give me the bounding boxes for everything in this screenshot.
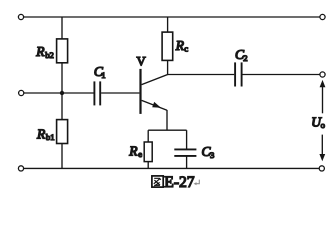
svg-text:V: V [137, 54, 147, 68]
svg-text:3: 3 [210, 150, 214, 160]
svg-text:b1: b1 [46, 132, 55, 142]
terminal: input mid-left [19, 90, 24, 95]
terminal: bottom-left [18, 166, 23, 171]
terminal: top-right [320, 14, 325, 19]
wire: C2 to output terminal [243, 74, 320, 76]
capacitor C3 [174, 149, 196, 156]
svg-text:o: o [321, 120, 326, 130]
wire: Rb2 top lead [61, 17, 63, 39]
wire: emitter bus [148, 129, 186, 131]
wire: Re top lead [147, 130, 149, 142]
label Rc [175, 38, 189, 54]
svg-text:R: R [175, 38, 185, 53]
label Re [128, 144, 142, 160]
wire: output wire collector to C2 [168, 74, 235, 76]
capacitor C2 [235, 62, 242, 86]
wire: Rb1 bottom lead [61, 144, 63, 169]
wire: bottom ground rail [24, 167, 320, 169]
svg-text:R: R [36, 126, 46, 141]
label caption return mark [194, 180, 200, 186]
wire: Rb1 top lead [61, 93, 63, 120]
label Rb1 [36, 126, 55, 142]
terminal: output right [320, 72, 325, 77]
svg-text:R: R [128, 144, 138, 159]
wire: emitter vertical lead [166, 110, 168, 130]
wire: top supply rail [24, 16, 320, 18]
svg-text:E-27: E-27 [164, 174, 195, 191]
wire: C3 bottom lead [186, 156, 188, 169]
wire: Rb2 bottom lead [61, 63, 63, 93]
capacitor C1 [94, 81, 100, 105]
wire: C3 top lead [186, 130, 188, 149]
transistor V emitter with arrow [142, 100, 167, 110]
terminal: input top-left [18, 14, 23, 19]
terminal: bottom-right [319, 166, 324, 171]
wire: base wire left segment (input to C1) [24, 92, 94, 94]
svg-text:e: e [138, 149, 142, 159]
label Rb2 [35, 44, 54, 60]
wire: Rc top lead [167, 17, 169, 32]
svg-text:2: 2 [243, 53, 247, 63]
label C1 [94, 64, 106, 80]
label Uo [311, 115, 325, 131]
transistor V base bar [139, 69, 141, 114]
wire: collector lead to Rc [142, 60, 168, 84]
label V [137, 54, 147, 68]
wire: base wire right segment (C1 to base) [101, 92, 139, 94]
wire: Uo upper arrow [320, 80, 326, 113]
label C3 [202, 144, 215, 160]
label C2 [235, 47, 248, 63]
wire: Uo lower arrow [319, 135, 325, 162]
resistor Rb2 [57, 39, 68, 63]
resistor Rc [162, 32, 173, 60]
wire: Re bottom lead [147, 162, 149, 169]
svg-text:1: 1 [101, 71, 105, 80]
svg-text:b2: b2 [45, 50, 54, 60]
resistor Rb1 [57, 120, 68, 144]
resistor Re [144, 142, 152, 162]
label caption E-27 [164, 174, 195, 191]
svg-text:R: R [35, 44, 45, 59]
node: bias divider junction [60, 91, 64, 95]
svg-text:c: c [184, 44, 188, 54]
label caption glyph 图 [152, 176, 163, 187]
